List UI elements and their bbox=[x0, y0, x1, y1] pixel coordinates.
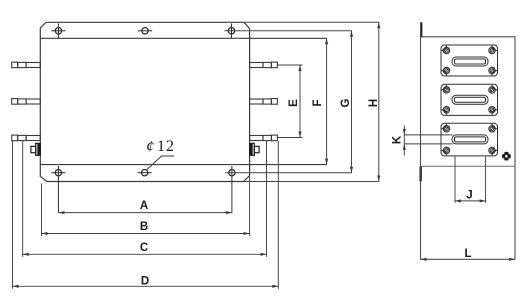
dimension B line with extension lines bbox=[42, 165, 250, 236]
side view top mounting tab bbox=[420, 22, 422, 37]
svg-text:B: B bbox=[140, 221, 148, 233]
dimension K line with outside arrows bbox=[403, 126, 406, 156]
svg-text:J: J bbox=[466, 190, 472, 202]
dimension J line bbox=[455, 199, 486, 202]
svg-text:E: E bbox=[288, 99, 300, 107]
svg-text:G: G bbox=[340, 98, 352, 107]
dimension C line with extension lines bbox=[23, 141, 267, 257]
H top extension line (flange top edge continued) bbox=[244, 21, 379, 23]
svg-text:D: D bbox=[141, 275, 149, 287]
G bottom extension line through bottom-right hole bbox=[225, 172, 352, 174]
front view body outline with flange chamfers bbox=[40, 22, 249, 181]
svg-text:F: F bbox=[312, 99, 324, 106]
terminal stud right 1 bbox=[250, 62, 278, 68]
side view bottom mounting tab bbox=[419, 166, 422, 181]
bottom flange top edge + F bottom extension line bbox=[40, 164, 326, 166]
mounting hole top-right bbox=[228, 24, 234, 39]
side view mid horizontal edge bbox=[421, 165, 516, 167]
terminal block 2 bbox=[441, 84, 498, 115]
top flange bottom edge + F top extension line bbox=[40, 37, 326, 39]
terminal block 1 bbox=[441, 45, 498, 76]
svg-text:12: 12 bbox=[157, 138, 175, 155]
terminal stud left 2 bbox=[12, 99, 41, 105]
dimension L line on bottom edge bbox=[421, 258, 516, 261]
mounting hole bottom-right with A extension line bbox=[229, 166, 235, 213]
mounting hole top-left bbox=[51, 24, 65, 39]
side view ground screw bbox=[502, 152, 511, 161]
dimension G line bbox=[350, 31, 353, 173]
terminal stud left 3 bbox=[12, 135, 41, 141]
svg-text:K: K bbox=[392, 135, 404, 144]
mounting hole bottom-middle bbox=[138, 170, 152, 176]
dimension A line bbox=[58, 211, 232, 214]
dimension H line bbox=[377, 22, 380, 181]
svg-text:L: L bbox=[464, 248, 471, 260]
svg-text:¢: ¢ bbox=[146, 139, 154, 156]
terminal stud left 1 bbox=[12, 62, 41, 68]
H bottom extension line (flange bottom edge continued) bbox=[244, 181, 380, 183]
terminal stud right 3 bbox=[250, 135, 278, 141]
dimension F line bbox=[325, 38, 328, 164]
dimension K extension lines bbox=[404, 135, 452, 144]
ground stud bottom-right bbox=[249, 143, 259, 156]
dimension E extension lines bbox=[278, 65, 303, 138]
mounting hole bottom-left with A extension line bbox=[51, 166, 65, 213]
dimension D line with extension lines bbox=[13, 141, 279, 289]
terminal block 3 bbox=[441, 123, 498, 156]
dimension E line bbox=[298, 65, 301, 138]
side view body bbox=[421, 37, 516, 259]
G top extension line through top-right hole bbox=[225, 30, 353, 32]
phi 12 leader line bbox=[147, 156, 174, 170]
dimension J extension lines bbox=[455, 156, 486, 203]
svg-text:C: C bbox=[140, 242, 148, 254]
mounting hole top-middle bbox=[138, 28, 152, 34]
svg-text:A: A bbox=[140, 200, 148, 212]
svg-text:H: H bbox=[368, 99, 380, 107]
ground stud bottom-left bbox=[31, 143, 41, 156]
terminal stud right 2 bbox=[250, 99, 278, 105]
